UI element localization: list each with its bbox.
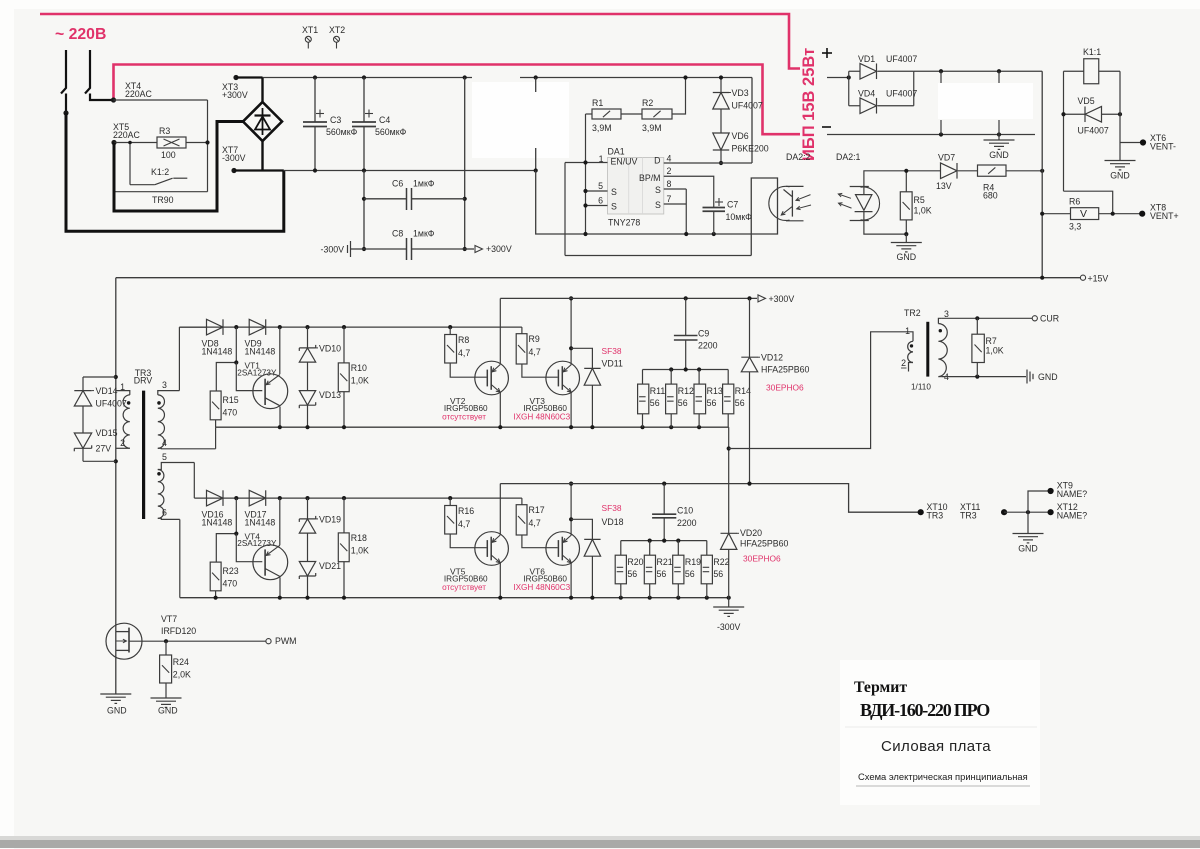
svg-text:UF4007: UF4007 <box>886 54 917 64</box>
wire 220V mains pink line 1 <box>40 14 800 69</box>
svg-text:S: S <box>655 185 661 195</box>
svg-text:R24: R24 <box>173 657 189 667</box>
wire VT2 emitter <box>499 392 501 428</box>
wire gate PWM line <box>129 640 266 642</box>
pin 1 EN/UV <box>565 162 608 164</box>
svg-text:S: S <box>611 202 617 212</box>
wire thick switch to XT7 node <box>66 113 284 231</box>
svg-text:ИБП 15В 25Вт: ИБП 15В 25Вт <box>800 48 818 161</box>
svg-text:1N4148: 1N4148 <box>202 518 233 528</box>
ground -300V <box>713 606 744 608</box>
svg-text:R12: R12 <box>678 386 694 396</box>
wire switch right blade to XT4 <box>90 94 114 101</box>
svg-text:R16: R16 <box>458 506 474 516</box>
svg-text:1/110: 1/110 <box>911 383 931 392</box>
pin 7 <box>664 203 687 205</box>
svg-text:56: 56 <box>713 569 723 579</box>
svg-text:R18: R18 <box>351 533 367 543</box>
svg-text:R5: R5 <box>914 195 925 205</box>
svg-text:VD11: VD11 <box>602 359 623 369</box>
svg-text:R1: R1 <box>592 98 603 108</box>
IC DA1 TNY278 body <box>608 158 664 215</box>
terminal XT6 <box>1120 142 1143 144</box>
pin 6 <box>586 205 608 207</box>
pin 5 <box>586 190 608 192</box>
svg-text:220AC: 220AC <box>113 130 141 140</box>
svg-text:R14: R14 <box>735 386 751 396</box>
svg-text:R19: R19 <box>685 557 701 567</box>
wire C6C8 block right vertical <box>464 78 466 250</box>
svg-text:R20: R20 <box>627 557 643 567</box>
svg-text:680: 680 <box>983 191 998 201</box>
node VD14 top <box>114 375 118 379</box>
zener VD13 <box>307 362 309 391</box>
svg-text:TNY278: TNY278 <box>608 218 640 228</box>
diode VD9 <box>249 319 266 335</box>
svg-text:S: S <box>611 187 617 197</box>
svg-text:3,9M: 3,9M <box>592 123 612 133</box>
svg-text:560мкФ: 560мкФ <box>326 127 358 137</box>
node pink-switch junction <box>63 110 68 115</box>
wire bus corner down to D line <box>751 78 753 164</box>
svg-text:R2: R2 <box>642 98 653 108</box>
svg-text:56: 56 <box>735 398 745 408</box>
svg-text:UF4007: UF4007 <box>886 89 917 99</box>
terminal XT4 <box>111 97 116 102</box>
wire +300V upper rail <box>500 297 757 299</box>
svg-text:VD4: VD4 <box>858 89 875 99</box>
wire - input rail <box>827 134 1035 136</box>
svg-text:C9: C9 <box>698 329 709 339</box>
switch SA mains plug blades <box>61 50 66 94</box>
svg-text:R23: R23 <box>223 566 239 576</box>
svg-text:R13: R13 <box>707 386 723 396</box>
svg-text:VD5: VD5 <box>1078 96 1095 106</box>
node startup vertical top <box>534 75 538 79</box>
svg-text:1: 1 <box>905 326 910 336</box>
label minus terminal <box>822 126 831 128</box>
wire pin3 up to VD8 rail <box>178 327 180 391</box>
svg-text:R9: R9 <box>529 334 540 344</box>
terminal XT3 <box>233 75 238 80</box>
ground GND under VT7 <box>100 693 131 695</box>
wire pin4 to upper mid rail <box>215 427 217 449</box>
ground GND under R24 <box>151 697 182 699</box>
svg-text:13V: 13V <box>936 181 952 191</box>
svg-text:56: 56 <box>657 569 667 579</box>
svg-text:+300V: +300V <box>486 244 512 254</box>
svg-text:UF4007: UF4007 <box>1078 126 1109 136</box>
diode VD20 HFA25PB60 <box>728 427 730 533</box>
svg-text:R6: R6 <box>1069 197 1080 207</box>
wire VT5 emitter <box>499 562 501 598</box>
resistor R22 <box>706 541 708 556</box>
diode VD6 suppressor <box>720 109 722 133</box>
svg-text:560мкФ: 560мкФ <box>375 127 407 137</box>
resistor R7 <box>972 334 984 362</box>
wire +15V rail <box>116 277 1081 279</box>
svg-text:C7: C7 <box>727 200 738 210</box>
svg-text:EN/UV: EN/UV <box>611 157 638 167</box>
wire VT3 emitter <box>570 392 572 428</box>
capacitor C6 <box>364 198 407 200</box>
capacitor C4 <box>363 78 365 123</box>
wire upper gate rail <box>179 326 522 328</box>
svg-text:2,0K: 2,0K <box>173 670 191 680</box>
wire R20-R22 top bus <box>621 540 707 542</box>
wire VT1 emitter up <box>279 327 281 374</box>
svg-text:4,7: 4,7 <box>458 519 470 529</box>
svg-text:5: 5 <box>162 452 167 462</box>
svg-text:NAME?: NAME? <box>1057 511 1087 521</box>
wire +300V top bus <box>263 77 473 79</box>
svg-text:VD6: VD6 <box>732 131 749 141</box>
svg-text:-300V: -300V <box>717 622 741 632</box>
node C6C8 vertical top <box>463 75 467 79</box>
svg-text:1,0K: 1,0K <box>351 546 369 556</box>
svg-text:VENT+: VENT+ <box>1150 211 1179 221</box>
svg-text:UF4007: UF4007 <box>96 399 127 409</box>
svg-text:2: 2 <box>120 438 125 448</box>
svg-text:BP/M: BP/M <box>639 173 661 183</box>
svg-text:R3: R3 <box>159 126 170 136</box>
svg-text:4: 4 <box>162 438 167 448</box>
svg-text:470: 470 <box>223 408 238 418</box>
svg-text:VD14: VD14 <box>96 386 118 396</box>
resistor R19 <box>677 541 679 556</box>
ground GND under XT6 branch <box>1119 143 1121 161</box>
svg-text:1,0K: 1,0K <box>914 206 932 216</box>
wire TR90 box bottom <box>114 191 208 193</box>
svg-text:56: 56 <box>678 398 688 408</box>
svg-text:1,0K: 1,0K <box>351 376 369 386</box>
relay contact K1:2 <box>129 143 131 185</box>
svg-text:10мкФ: 10мкФ <box>726 212 753 222</box>
svg-text:56: 56 <box>627 569 637 579</box>
capacitor C9 <box>685 298 687 335</box>
diode VD18 SF38 <box>571 519 592 539</box>
svg-text:TR2: TR2 <box>904 308 921 318</box>
transistor VT4 2SA1273Y <box>253 545 288 580</box>
svg-text:1N4148: 1N4148 <box>245 518 276 528</box>
ground GND stub at TR2 <box>1026 370 1028 384</box>
wire DA2:1 cathode <box>864 212 906 235</box>
svg-text:R22: R22 <box>713 557 729 567</box>
wire thick XT5 to bridge AC input <box>114 122 243 212</box>
node VD15 bottom <box>114 459 118 463</box>
wire VT4 emitter up <box>279 498 281 545</box>
terminal XT9 <box>1048 488 1054 494</box>
svg-text:-300V: -300V <box>321 245 345 255</box>
svg-text:K1:1: K1:1 <box>1083 47 1101 57</box>
svg-text:C8: C8 <box>392 229 403 239</box>
svg-text:SF38: SF38 <box>602 346 622 356</box>
svg-text:R7: R7 <box>986 336 997 346</box>
resistor R13 <box>698 370 700 385</box>
svg-text:отсутствует: отсутствует <box>442 412 486 421</box>
wire main left vertical <box>115 278 117 632</box>
svg-text:2: 2 <box>667 166 672 176</box>
wire DA1 source rail B <box>565 255 751 257</box>
wire pins 7-8 to source rail <box>685 189 687 234</box>
svg-text:C6: C6 <box>392 179 403 189</box>
svg-text:IXGH 48N60C3: IXGH 48N60C3 <box>513 412 570 421</box>
net +300V arrow right <box>465 248 474 250</box>
svg-text:R17: R17 <box>529 505 545 515</box>
svg-text:TR90: TR90 <box>152 195 174 205</box>
svg-text:XT2: XT2 <box>329 25 345 35</box>
resistor R14 <box>727 370 729 385</box>
svg-text:DRV: DRV <box>134 376 153 386</box>
wire K1 loop to R6 <box>1064 191 1113 214</box>
diode VD3 <box>720 78 722 93</box>
svg-text:Схема электрическая принципиал: Схема электрическая принципиальная <box>858 771 1028 782</box>
diode VD11 SF38 <box>571 348 592 368</box>
ground GND under R5 <box>905 234 907 242</box>
wire right vertical +15 feed <box>1041 71 1043 277</box>
svg-text:ВДИ-160-220 ПРО: ВДИ-160-220 ПРО <box>860 700 990 720</box>
resistor R5 <box>900 192 912 220</box>
wire VT5 collector <box>499 484 501 535</box>
svg-text:1мкФ: 1мкФ <box>413 179 435 189</box>
terminal XT12 <box>1048 509 1054 515</box>
diode VD14 <box>83 376 116 378</box>
svg-text:3,3: 3,3 <box>1069 222 1081 232</box>
wire XT5 to R3 <box>114 142 157 144</box>
wire -rail corner down to DA1 source rail <box>536 171 778 256</box>
svg-text:DA2:2: DA2:2 <box>786 152 811 162</box>
diode VD12 HFA25PB60 <box>749 298 751 357</box>
resistor R9 <box>521 327 523 334</box>
zener VD10 <box>307 327 309 348</box>
svg-text:~ 220В: ~ 220В <box>55 26 106 43</box>
svg-text:P6KE200: P6KE200 <box>732 144 769 154</box>
resistor R6 varistor <box>1071 208 1099 220</box>
svg-text:GND: GND <box>1038 372 1058 382</box>
svg-text:C4: C4 <box>379 115 390 125</box>
svg-text:XT1: XT1 <box>302 25 318 35</box>
wire TR90 box right side <box>207 100 209 192</box>
svg-text:VD20: VD20 <box>740 528 762 538</box>
svg-text:30EPHO6: 30EPHO6 <box>766 383 804 393</box>
svg-text:2200: 2200 <box>698 341 718 351</box>
resistor R1 <box>592 109 621 119</box>
wire base branch VT4 <box>216 498 236 562</box>
wire pin5 down to VD16 rail <box>193 463 195 499</box>
svg-text:R10: R10 <box>351 363 367 373</box>
wire XT11 to XT12 <box>1004 511 1051 513</box>
wire TR2 pin4 line <box>942 376 1026 378</box>
wire K1 right branch <box>1119 71 1121 142</box>
svg-text:3: 3 <box>944 309 949 319</box>
svg-text:R15: R15 <box>223 395 239 405</box>
svg-text:D: D <box>654 156 660 166</box>
svg-text:-300V: -300V <box>222 153 246 163</box>
terminal XT7 <box>231 168 236 173</box>
wire R2 to bus <box>672 78 686 115</box>
svg-text:220AC: 220AC <box>125 89 153 99</box>
svg-text:GND: GND <box>1018 544 1038 554</box>
svg-text:VD3: VD3 <box>732 88 749 98</box>
node source rail junctions <box>583 232 587 236</box>
wire startup dropper vertical <box>535 78 537 93</box>
resistor R3 <box>157 137 186 148</box>
wire R1-R2 link <box>621 113 642 115</box>
svg-text:VT7: VT7 <box>161 614 177 624</box>
wire DA2:1 anode <box>864 171 941 195</box>
svg-text:VD12: VD12 <box>761 353 783 363</box>
wire VT6 collector <box>570 484 572 535</box>
wire EN loop left vertical <box>564 163 566 256</box>
transformer TR3 core <box>142 391 145 519</box>
wire upper mid rail <box>216 426 729 428</box>
wire switch left to pink junction <box>65 94 67 114</box>
svg-text:HFA25PB60: HFA25PB60 <box>761 365 810 375</box>
svg-text:GND: GND <box>107 706 127 716</box>
svg-text:1мкФ: 1мкФ <box>413 229 435 239</box>
svg-text:DA2:1: DA2:1 <box>836 152 861 162</box>
svg-text:GND: GND <box>989 150 1009 160</box>
svg-text:PWM: PWM <box>275 636 297 646</box>
label plus terminal <box>822 52 832 54</box>
resistor R20 <box>620 541 622 556</box>
wire C6C8 block left vertical <box>363 171 365 250</box>
resistor R21 <box>649 541 651 556</box>
diode VD8 <box>179 326 206 328</box>
transformer TR2 winding 3-4 <box>938 318 942 323</box>
transformer TR3 winding 3-4 <box>158 391 180 395</box>
wire to XT9 <box>1028 491 1051 512</box>
wire VT2 collector <box>499 298 501 364</box>
svg-text:VD21: VD21 <box>319 561 341 571</box>
resistor R18 <box>343 498 345 533</box>
capacitor C10 <box>663 484 665 515</box>
svg-text:1N4148: 1N4148 <box>202 347 233 357</box>
resistor R16 <box>449 498 451 505</box>
terminal XT5 <box>111 140 116 145</box>
svg-text:4,7: 4,7 <box>529 347 541 357</box>
diode VD15 zener 27V <box>82 406 84 433</box>
resistor R17 <box>521 498 523 505</box>
transistor VT2 IRGP50B60 <box>475 361 509 395</box>
resistor R11 <box>642 370 644 385</box>
svg-text:1: 1 <box>599 154 604 164</box>
diode VD17 <box>249 490 266 506</box>
transformer TR2 winding 1-2 <box>908 341 913 362</box>
svg-text:470: 470 <box>223 579 238 589</box>
capacitor C8 <box>362 247 366 251</box>
svg-text:S: S <box>655 200 661 210</box>
svg-text:VD7: VD7 <box>938 153 955 163</box>
svg-text:SF38: SF38 <box>602 503 622 513</box>
svg-text:4: 4 <box>667 154 672 164</box>
svg-text:VD19: VD19 <box>319 515 341 525</box>
wire R6 line <box>1042 213 1070 215</box>
terminal XT10 <box>918 509 924 515</box>
wire VT4 collector down <box>279 578 281 598</box>
terminal XT8 <box>1139 211 1145 217</box>
node C3 top <box>313 75 317 79</box>
svg-text:2: 2 <box>901 358 906 368</box>
wire bridge top to +300V bus <box>261 78 263 103</box>
transistor VT3 IRGP50B60 <box>546 361 580 395</box>
svg-text:+300V: +300V <box>769 294 795 304</box>
svg-text:4,7: 4,7 <box>458 348 470 358</box>
svg-text:4,7: 4,7 <box>529 518 541 528</box>
wire 220V mains pink line 2 <box>114 65 801 135</box>
capacitor C3 <box>314 78 316 123</box>
svg-text:2SA1273Y: 2SA1273Y <box>237 539 277 548</box>
svg-text:R8: R8 <box>458 335 469 345</box>
transistor VT7 IRFD120 <box>106 623 142 659</box>
svg-text:56: 56 <box>707 398 717 408</box>
zener VD19 <box>307 498 309 519</box>
diode VD16 <box>207 490 224 506</box>
pin 4 D line <box>664 162 752 164</box>
wire bridge bottom to -300V rail <box>261 141 263 171</box>
wire VT6 emitter <box>570 562 572 598</box>
svg-text:6: 6 <box>162 508 167 518</box>
svg-text:GND: GND <box>158 706 178 716</box>
bridge rectifier VDS1 <box>243 102 282 141</box>
svg-text:8: 8 <box>667 179 672 189</box>
ground GND under XT11 <box>1027 512 1029 533</box>
svg-text:100: 100 <box>161 150 176 160</box>
resistor R23 <box>210 562 221 591</box>
svg-text:+15V: +15V <box>1088 274 1109 284</box>
svg-text:VD15: VD15 <box>96 428 118 438</box>
wire VT3 collector <box>570 298 572 364</box>
resistor R12 <box>670 370 672 385</box>
svg-text:56: 56 <box>650 398 660 408</box>
wire VT7 source to ground <box>115 650 117 693</box>
svg-text:GND: GND <box>1110 171 1130 181</box>
svg-text:VD10: VD10 <box>319 344 341 354</box>
svg-text:HFA25PB60: HFA25PB60 <box>740 539 789 549</box>
zener VD21 <box>307 533 309 561</box>
wire VD1-VD4 parallel joins <box>848 71 850 106</box>
wire +15V top bus <box>914 70 1042 72</box>
resistor R2 <box>642 109 672 119</box>
wire mid rail to TR2 primary <box>729 332 913 449</box>
svg-text:27V: 27V <box>96 444 112 454</box>
svg-text:K1:2: K1:2 <box>151 167 169 177</box>
svg-text:отсутствует: отсутствует <box>442 583 486 592</box>
transformer TR3 winding 1-2 <box>116 391 130 395</box>
wire R1 left down to EN pin <box>586 113 593 115</box>
svg-text:GND: GND <box>897 252 917 262</box>
resistor R8 <box>449 327 451 334</box>
bottom page edge strip <box>0 840 1200 848</box>
svg-text:56: 56 <box>685 569 695 579</box>
wire TR2 pin3 to CUR <box>942 317 1032 319</box>
wire pin6 down to lower rail <box>179 519 181 597</box>
svg-text:CUR: CUR <box>1040 314 1059 324</box>
transistor VT5 IRGP50B60 <box>475 532 509 566</box>
wire VT1 collector down <box>279 407 281 428</box>
svg-text:NAME?: NAME? <box>1057 489 1087 499</box>
svg-text:V: V <box>1080 208 1087 220</box>
capacitor C7 <box>703 207 726 209</box>
wire lower mid rail <box>180 597 729 599</box>
transformer TR2 core <box>926 322 929 377</box>
terminal XT11 <box>1001 509 1007 515</box>
svg-text:1N4148: 1N4148 <box>245 347 276 357</box>
transformer TR3 winding 5-6 <box>158 463 195 470</box>
wire -300V rail <box>284 170 536 172</box>
svg-text:3,9M: 3,9M <box>642 123 662 133</box>
svg-text:1,0K: 1,0K <box>986 346 1004 356</box>
